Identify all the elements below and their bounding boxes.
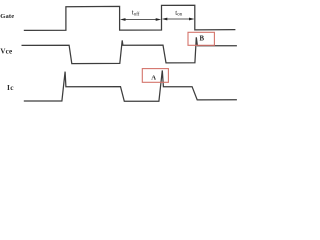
svg-text:toff: toff (132, 8, 140, 17)
Gate waveform (24, 5, 236, 30)
svg-text:Vce: Vce (0, 48, 12, 56)
svg-text:Ic: Ic (7, 83, 14, 92)
svg-text:B: B (200, 35, 205, 42)
svg-text:Gate: Gate (0, 13, 14, 20)
svg-text:ton: ton (175, 9, 182, 18)
marker box B (188, 32, 214, 45)
marker box A (142, 69, 168, 83)
t_on arrow (162, 18, 195, 21)
Vce waveform (22, 37, 237, 63)
Ic waveform (24, 70, 237, 101)
svg-text:A: A (151, 74, 156, 81)
t_off arrow (120, 18, 161, 21)
